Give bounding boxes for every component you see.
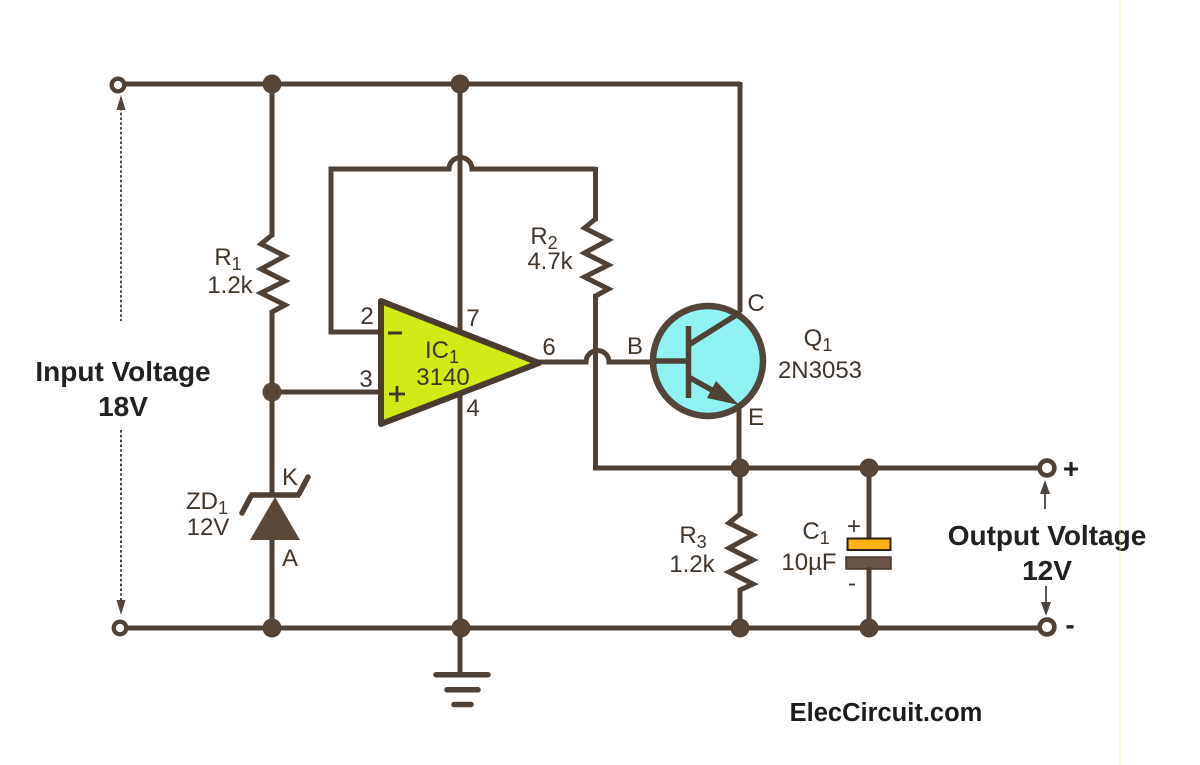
- wire emitter to rail: [737, 404, 742, 470]
- zener diode ZD1: [242, 477, 308, 540]
- junction top rail supply: [451, 75, 470, 94]
- junction bottom rail zener: [263, 619, 282, 638]
- junction R1 zener pin3 node: [263, 383, 282, 402]
- label IC1 3140: [416, 337, 469, 391]
- svg-text:Input Voltage: Input Voltage: [35, 356, 210, 387]
- scan artifact faint line: [1119, 0, 1121, 765]
- label Q1 2N3053: [778, 325, 862, 384]
- svg-text:18V: 18V: [98, 391, 148, 422]
- junction emitter rail C1: [860, 459, 879, 478]
- label C1 plus: [847, 513, 861, 540]
- label pin 3: [359, 366, 372, 393]
- transistor Q1 base lead inside: [654, 358, 688, 364]
- resistor R2: [585, 219, 609, 296]
- label output plus: [1063, 453, 1079, 484]
- label C1 value: [781, 518, 836, 576]
- svg-text:C: C: [747, 290, 764, 317]
- wire op-amp supply line: [458, 84, 463, 674]
- junction bottom rail C1: [860, 619, 879, 638]
- wire op-amp output to base with hop: [538, 351, 656, 363]
- resistor R3: [729, 514, 753, 590]
- svg-text:B: B: [627, 333, 643, 360]
- svg-text:2N3053: 2N3053: [778, 357, 862, 384]
- output dimension arrow lower: [1041, 586, 1051, 616]
- label ElecCircuit.com: [790, 699, 983, 727]
- label pin 4: [466, 395, 479, 422]
- svg-text:2: 2: [360, 303, 373, 330]
- svg-text:12V: 12V: [1022, 555, 1072, 586]
- wire top rail: [125, 82, 740, 87]
- label R3 value: [669, 522, 715, 578]
- label ZD1 value: [186, 488, 229, 541]
- op-amp IC1 triangle: [381, 301, 539, 424]
- svg-text:4: 4: [466, 395, 479, 422]
- wire bottom rail: [127, 626, 1040, 631]
- label C: [747, 290, 764, 317]
- wire R2 bottom to emitter rail: [596, 294, 1041, 468]
- label R1 value: [207, 244, 253, 299]
- terminal output plus: [1040, 461, 1055, 476]
- svg-text:A: A: [282, 545, 298, 572]
- label K: [282, 464, 298, 491]
- svg-text:-: -: [1065, 609, 1074, 640]
- wire zener to bottom rail: [270, 537, 275, 629]
- junction bottom rail ground: [452, 619, 471, 638]
- svg-text:E: E: [748, 404, 764, 431]
- label pin 2: [360, 303, 373, 330]
- svg-text:Q1: Q1: [804, 325, 833, 355]
- transistor Q1 circle: [653, 306, 763, 416]
- svg-text:12V: 12V: [187, 514, 230, 541]
- label pin 6: [542, 334, 555, 361]
- label B: [627, 333, 643, 360]
- junction top rail R1: [263, 75, 282, 94]
- wire C1 top lead: [867, 466, 872, 540]
- svg-text:10µF: 10µF: [781, 549, 836, 576]
- label pin 7: [466, 305, 479, 332]
- terminal input plus: [112, 79, 125, 92]
- svg-text:-: -: [848, 570, 856, 597]
- resistor R1: [261, 235, 285, 312]
- svg-text:Output Voltage: Output Voltage: [948, 520, 1147, 551]
- svg-text:R3: R3: [679, 522, 706, 552]
- transistor Q1 collector diagonal: [689, 312, 742, 345]
- svg-text:ElecCircuit.com: ElecCircuit.com: [790, 699, 983, 727]
- terminal input minus: [114, 622, 127, 635]
- wire R1 branch upper: [270, 84, 275, 237]
- svg-text:7: 7: [466, 305, 479, 332]
- terminal output minus: [1040, 620, 1055, 635]
- svg-text:3140: 3140: [416, 364, 469, 391]
- wire R2 top lead: [593, 167, 598, 221]
- svg-text:4.7k: 4.7k: [527, 248, 573, 275]
- wire pin 3 lead: [272, 390, 382, 395]
- label E: [748, 404, 764, 431]
- label output voltage: [948, 520, 1147, 586]
- capacitor C1 plates: [846, 539, 891, 570]
- svg-text:3: 3: [359, 366, 372, 393]
- label C1 minus: [848, 570, 856, 597]
- input dimension arrow upper: [117, 95, 126, 321]
- output dimension arrow upper: [1040, 480, 1050, 509]
- label R2 value: [527, 223, 573, 275]
- op-amp plus sign: [389, 386, 405, 402]
- svg-text:K: K: [282, 464, 298, 491]
- label input voltage: [35, 356, 210, 422]
- wire R3 bottom lead: [738, 588, 743, 629]
- wire C1 bottom lead: [867, 567, 872, 629]
- svg-text:+: +: [1063, 453, 1079, 484]
- svg-text:R1: R1: [214, 244, 241, 274]
- input dimension arrow lower: [117, 430, 126, 615]
- svg-text:+: +: [847, 513, 861, 540]
- wire R3 top lead: [738, 466, 743, 516]
- svg-text:6: 6: [542, 334, 555, 361]
- op-amp minus sign: [388, 332, 402, 335]
- svg-text:1.2k: 1.2k: [669, 551, 715, 578]
- label A: [282, 545, 298, 572]
- transistor Q1 base bar: [686, 326, 692, 398]
- junction bottom rail R3: [731, 619, 750, 638]
- svg-text:1.2k: 1.2k: [207, 272, 253, 299]
- junction emitter rail R3: [731, 459, 750, 478]
- label output minus: [1065, 609, 1074, 640]
- transistor Q1 emitter diagonal with arrow: [689, 377, 740, 405]
- wire R1 to zener: [270, 310, 275, 497]
- svg-text:C1: C1: [802, 518, 829, 548]
- ground: [436, 675, 488, 705]
- wire pin 2 lead and feedback loop: [331, 158, 596, 333]
- wire collector drop: [738, 82, 743, 312]
